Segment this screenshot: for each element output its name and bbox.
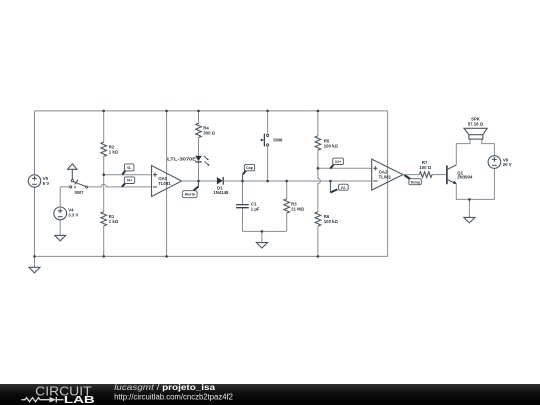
svg-text:100 kΩ: 100 kΩ [324,219,339,224]
wire top rail [35,110,388,112]
wire OA1 output [182,180,217,182]
wire V5 bottom [34,187,36,256]
ground (Q1 branch) [464,217,475,223]
node VI- divider tap [102,173,105,176]
wire OA2 out to R7 [403,174,419,176]
svg-text:SW6: SW6 [273,137,283,142]
wire SW7 to divider (with hop over R2-R1 wire) [88,184,152,186]
wire R4/LED branch [198,111,200,181]
wire R5/R6 branch (hop over signal wire) [318,111,321,257]
voltage source V5 [28,175,49,187]
flag Alerta [182,181,198,198]
junction R2 top rail [102,110,105,113]
op-amp OA1 [152,166,182,197]
logo resistor zigzag [21,398,49,402]
junction SW6 top rail [266,110,269,113]
junction ground bottom rail [33,255,36,258]
svg-text:21 MΩ: 21 MΩ [291,206,305,211]
svg-text:20 V: 20 V [503,162,512,167]
resistor R5 [315,136,338,150]
svg-text:VI-: VI- [127,166,132,170]
junction C1/R3 ground [261,230,264,233]
svg-text:Alerta: Alerta [184,193,195,197]
node V2+ divider tap [317,167,320,170]
svg-text:LTL-3070E: LTL-3070E [167,156,196,161]
wire emitter [456,184,494,200]
flag Temp [404,175,421,185]
flag V2+ [330,158,343,169]
svg-text:3.3 V: 3.3 V [68,212,78,217]
ground (V5 branch) [29,267,40,273]
switch SW6 [261,134,283,147]
voltage source V6 [488,156,512,169]
svg-text:V2-: V2- [341,186,348,190]
svg-text:1 kΩ: 1 kΩ [109,219,119,224]
resistor R6 [315,212,338,226]
wire bottom rail [35,255,388,257]
svg-text:TL081: TL081 [158,181,171,186]
wire R1 bottom [103,226,105,256]
diode D1 [213,177,229,195]
ground (V4 branch) [55,235,66,241]
wire V5 top [34,111,36,175]
resistor R4 [196,123,216,137]
resistor R2 [101,142,119,156]
svg-text:TL081: TL081 [379,175,392,180]
svg-text:VI+: VI+ [127,179,133,183]
flag VI- [122,164,134,175]
junction SW6 bottom [266,180,269,183]
svg-text:1N4148: 1N4148 [213,190,229,195]
logo diode [50,397,57,403]
LED LTL-3070E [167,156,209,166]
wire divider tap to OA2 plus [318,167,372,169]
op-amp OA2 power wire [387,111,389,257]
node Cap [241,180,244,183]
wire ground stub left [34,256,36,267]
wire D1 to OA2 [224,180,372,182]
wire ground stub Q1 [468,199,470,217]
switch SW6 wires [267,111,269,181]
wire V4 branch [60,187,70,236]
wire collector [456,139,470,165]
wire speaker right to V6 [482,139,495,156]
svg-text:Temp: Temp [410,180,420,184]
resistor R1 [101,212,119,226]
node Alerta [197,180,200,183]
node V2- [329,180,332,183]
wire C1 branch [243,181,287,231]
junction OA1 V+ top rail [165,110,168,113]
voltage source V4 [54,207,79,220]
wire R3 branch [286,181,288,231]
wire R2 top [103,111,105,142]
capacitor C1 [236,202,260,212]
junction R3 top [285,180,288,183]
svg-text:100 Ω: 100 Ω [419,165,431,170]
svg-text:V2+: V2+ [335,160,342,164]
svg-text:SW7: SW7 [74,190,84,195]
svg-text:5 V: 5 V [43,181,50,186]
junction OA1 V- bottom rail [165,255,168,258]
op-amp OA1 power wire [166,111,168,257]
flag VI+ [122,177,135,187]
junction R6 bottom rail [317,255,320,258]
junction R4 top rail [197,110,200,113]
svg-text:2N3904: 2N3904 [457,175,473,180]
switch SW7 [68,164,88,195]
svg-text:1 kΩ: 1 kΩ [109,150,119,155]
junction R1 bottom rail [102,255,105,258]
transistor Q1 [447,165,473,184]
flag Cap [243,164,255,181]
wire R2-R1 middle [103,156,105,211]
wire R7 to Q1 base [432,174,446,176]
resistor R7 [419,160,432,177]
svg-text:Cap: Cap [246,166,254,170]
ground (C1/R3 branch) [261,231,263,242]
flag V2- [330,181,348,193]
wire V6 bottom [493,168,495,199]
speaker SPK [464,116,487,139]
wire divider tap to OA1 [104,174,152,176]
svg-text:57.16 Ω: 57.16 Ω [468,121,484,126]
svg-text:lucasgmt / projeto_isa: lucasgmt / projeto_isa [114,383,216,392]
svg-text:http://circuitlab.com/cnczb2tp: http://circuitlab.com/cnczb2tpaz4f2 [114,393,233,402]
op-amp OA2 [372,159,403,190]
resistor R3 [284,199,305,213]
svg-text:1 µF: 1 µF [251,206,260,211]
junction emitter ground [468,198,471,201]
svg-text:LAB: LAB [64,395,95,405]
svg-text:100 kΩ: 100 kΩ [324,144,339,149]
svg-text:300 Ω: 300 Ω [203,130,215,135]
junction R5 top rail [317,110,320,113]
